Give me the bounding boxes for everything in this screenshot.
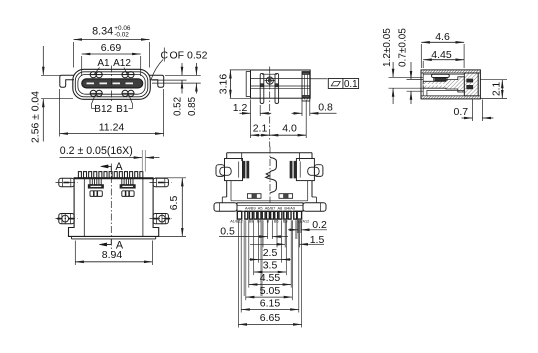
svg-text:A1/B12: A1/B12 <box>230 220 242 224</box>
svg-text:6.5: 6.5 <box>168 196 180 211</box>
svg-text:0.7: 0.7 <box>453 106 468 118</box>
svg-text:B5: B5 <box>274 220 279 224</box>
svg-text:6.65: 6.65 <box>260 312 281 324</box>
svg-text:4.55: 4.55 <box>260 272 281 284</box>
svg-text:2.1: 2.1 <box>491 82 502 96</box>
svg-text:B12: B12 <box>94 104 112 115</box>
svg-text:1.2±0.05: 1.2±0.05 <box>382 28 393 67</box>
svg-text:A12: A12 <box>113 58 131 69</box>
svg-text:0.85: 0.85 <box>187 96 198 116</box>
svg-text:0.8: 0.8 <box>318 102 333 114</box>
svg-text:A: A <box>115 161 123 173</box>
svg-text:OF 0.52: OF 0.52 <box>170 50 208 62</box>
svg-text:4.6: 4.6 <box>435 31 450 43</box>
svg-text:1.5: 1.5 <box>310 234 325 246</box>
svg-text:3.5: 3.5 <box>263 260 278 272</box>
svg-text:2.1: 2.1 <box>253 123 268 135</box>
svg-text:0.7±0.05: 0.7±0.05 <box>398 28 409 67</box>
svg-text:B8: B8 <box>249 220 254 224</box>
svg-text:8.94: 8.94 <box>102 249 123 261</box>
svg-text:6.15: 6.15 <box>260 297 281 309</box>
svg-text:B1: B1 <box>116 104 129 115</box>
svg-text:0.5: 0.5 <box>220 226 235 238</box>
svg-text:0.2: 0.2 <box>312 219 327 231</box>
svg-text:0.2 ± 0.05(16X): 0.2 ± 0.05(16X) <box>60 145 133 157</box>
svg-text:4.0: 4.0 <box>282 123 297 135</box>
svg-text:2.56 ± 0.04: 2.56 ± 0.04 <box>31 91 42 143</box>
svg-text:3.16: 3.16 <box>217 74 229 95</box>
svg-text:A4/B9 A5 A6/B7 A8 B4/A9: A4/B9 A5 A6/B7 A8 B4/A9 <box>245 206 295 211</box>
svg-text:11.24: 11.24 <box>99 121 125 133</box>
svg-text:8.34: 8.34 <box>92 25 113 37</box>
svg-text:1.2: 1.2 <box>233 102 248 114</box>
svg-text:6.69: 6.69 <box>101 42 122 54</box>
svg-text:-0.02: -0.02 <box>114 31 129 38</box>
svg-text:4.45: 4.45 <box>431 49 452 61</box>
svg-text:0.1: 0.1 <box>344 79 358 90</box>
svg-text:2.5: 2.5 <box>263 247 278 259</box>
svg-text:5.05: 5.05 <box>260 285 281 297</box>
svg-text:B: B <box>267 220 270 224</box>
svg-text:0.52: 0.52 <box>173 97 184 116</box>
